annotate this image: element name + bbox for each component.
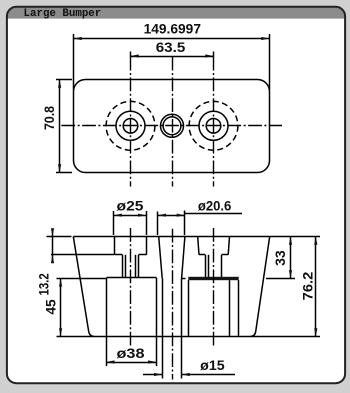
45 <box>59 278 62 286</box>
13.2 <box>51 228 54 236</box>
dim Ø38 ext lines <box>106 336 108 366</box>
right boss Ø20.6 top <box>198 237 199 255</box>
dim 149.6997: dimension line <box>74 38 270 40</box>
right hole: stem circle <box>206 119 221 134</box>
dim 70.8: extension lines <box>56 79 72 81</box>
centerline left leg <box>130 228 132 346</box>
svg-text:149.6997: 149.6997 <box>144 22 202 37</box>
vertical centerline left hole <box>130 57 132 187</box>
right foot thick top band <box>188 277 238 280</box>
svg-text:ø20.6: ø20.6 <box>198 199 232 214</box>
dim 63.5: dimension line <box>131 56 214 58</box>
svg-text:Large Bumper: Large Bumper <box>24 8 102 20</box>
33 <box>289 237 292 245</box>
63.5 <box>131 54 139 57</box>
svg-text:ø38: ø38 <box>117 346 145 361</box>
right hole: hidden foot circle (dashed) <box>189 101 238 150</box>
dim 149.6997: extension lines <box>73 34 75 90</box>
dim 45 ext line (foot top level) <box>57 278 107 280</box>
plate outline (rounded rect) <box>74 80 270 173</box>
dim 33 ext line <box>266 278 295 280</box>
centerline center hole <box>172 229 174 380</box>
right foot Ø38 <box>188 280 190 336</box>
centerline right leg <box>213 228 215 346</box>
70.8 <box>58 80 61 88</box>
left foot Ø38 <box>107 277 157 279</box>
76.2 <box>314 237 317 245</box>
dimension texts <box>36 22 315 373</box>
bottom line (body bottom + extensions) <box>57 336 321 338</box>
right stem <box>205 255 207 277</box>
right hole: boss circle <box>199 111 228 140</box>
dim 76.2 top ext line <box>270 236 320 238</box>
dim Ø15 line (outside arrows) <box>143 374 162 376</box>
dim Ø20.6 ext lines <box>157 212 159 236</box>
dim Ø20.6 line + shelf <box>158 215 185 217</box>
dim Ø15 ext lines <box>162 336 164 378</box>
svg-text:13.2: 13.2 <box>36 273 51 296</box>
dim Ø38 line <box>106 362 156 364</box>
horizontal centerline <box>61 125 282 127</box>
Ø20.6 <box>158 214 166 217</box>
left hole: hidden foot circle (dashed) <box>106 101 155 150</box>
left stem <box>122 255 124 278</box>
svg-text:70.8: 70.8 <box>42 106 57 130</box>
Ø38 <box>106 360 114 363</box>
center funnel Ø20.6 -> Ø15 <box>159 237 163 279</box>
svg-text:ø15: ø15 <box>200 358 225 373</box>
vertical centerline right hole <box>213 57 215 187</box>
dim 76.2 line <box>315 237 317 337</box>
body right slant <box>251 237 270 337</box>
center hole: outer circle <box>161 114 184 137</box>
title bar <box>7 7 345 19</box>
Ø25 <box>114 214 122 217</box>
dim 33 line <box>290 237 292 279</box>
149.6997 <box>74 37 82 40</box>
dim 45 line <box>60 278 62 336</box>
center hole: inner circle <box>163 117 181 135</box>
svg-text:76.2: 76.2 <box>300 271 315 300</box>
dim 63.5: extension stubs <box>130 52 132 57</box>
dim 13.2 ext line <box>47 236 72 238</box>
body top edge <box>73 236 269 238</box>
svg-text:63.5: 63.5 <box>156 40 186 55</box>
left boss Ø25 <box>114 237 116 255</box>
svg-text:ø25: ø25 <box>117 199 144 214</box>
vertical centerline center hole <box>172 57 174 187</box>
center hole walls Ø15 <box>162 278 164 336</box>
dim Ø25 line <box>114 215 147 217</box>
dim 70.8: dimension line <box>59 80 61 173</box>
left hole: stem circle <box>123 119 138 134</box>
svg-text:45: 45 <box>44 299 59 315</box>
dim Ø25 ext lines <box>113 211 115 235</box>
body left slant <box>73 237 94 337</box>
svg-text:33: 33 <box>273 250 288 266</box>
Ø15 (outside arrows) <box>154 373 162 376</box>
dim 13.2 line <box>52 230 54 263</box>
left hole: boss circle <box>116 111 145 140</box>
arrowheads <box>51 37 318 376</box>
